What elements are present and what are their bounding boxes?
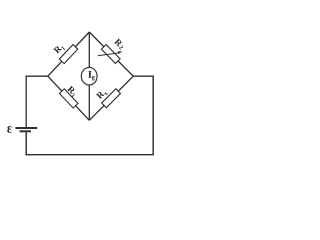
arrow of variable resistor R2	[98, 53, 119, 56]
label R3	[66, 86, 78, 98]
wire: left node to left rail down to battery	[26, 76, 48, 127]
label Ig	[88, 71, 94, 80]
label epsilon	[7, 126, 11, 133]
wire: left node to bottom node diagonal	[48, 76, 90, 120]
wire: top node to left node diagonal	[48, 32, 90, 76]
resistor R1	[59, 45, 78, 64]
label R2	[114, 38, 125, 49]
label R1	[53, 43, 65, 55]
wire: galvanometer branch top to bottom node	[88, 32, 90, 120]
galvanometer Ig (meter body)	[81, 67, 97, 85]
wire: battery to bottom rail to right rail to right node	[26, 76, 153, 155]
resistor R3	[59, 89, 78, 108]
resistor Rx	[102, 89, 121, 108]
battery short plate	[20, 130, 31, 132]
label Rx	[96, 88, 108, 100]
resistor R2 (variable)	[101, 45, 120, 64]
wire: top node to right node diagonal	[89, 32, 133, 76]
wire: bottom node to right node diagonal	[89, 76, 133, 120]
battery long plate	[15, 127, 37, 129]
